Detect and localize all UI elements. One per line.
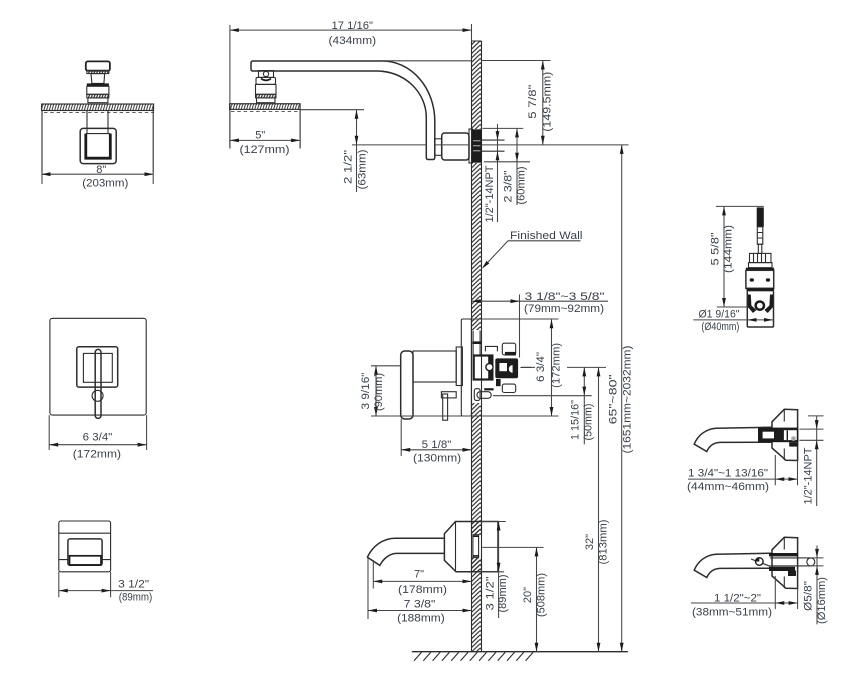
cartridge: lower body — [747, 291, 773, 327]
svg-text:8": 8" — [96, 164, 106, 176]
svg-text:(508mm): (508mm) — [536, 573, 548, 617]
svg-text:(38mm~51mm): (38mm~51mm) — [692, 606, 772, 618]
svg-text:(89mm): (89mm) — [497, 575, 509, 613]
svg-text:20": 20" — [522, 587, 534, 603]
dimension 32" (813mm) — [584, 367, 610, 651]
svg-text:6 3/4": 6 3/4" — [83, 431, 113, 443]
svg-text:(44mm~46mm): (44mm~46mm) — [687, 481, 769, 493]
dimension 5 7/8" (149.5mm) — [527, 61, 554, 145]
tub spout side view: wall block — [367, 522, 498, 572]
svg-text:7 3/8": 7 3/8" — [404, 599, 436, 611]
dimension 17 1/16" (434mm) — [230, 20, 472, 47]
svg-text:(172mm): (172mm) — [551, 343, 563, 388]
svg-text:17 1/16": 17 1/16" — [332, 20, 374, 32]
svg-text:(203mm): (203mm) — [82, 178, 128, 190]
valve body — [474, 356, 493, 380]
svg-text:(178mm): (178mm) — [398, 584, 447, 596]
dimension 3 9/16" (90mm) — [360, 366, 559, 416]
wall-mount spout (slip-on type): flange hexagon — [694, 537, 815, 588]
svg-text:(172mm): (172mm) — [73, 448, 121, 460]
svg-text:(1651mm~2032mm): (1651mm~2032mm) — [622, 346, 634, 454]
dimension 65"~80" (1651mm~2032mm) — [608, 145, 634, 652]
cartridge: body — [746, 268, 774, 271]
shower head side view: sides/extension lines — [229, 25, 231, 104]
svg-text:1/2"-14NPT: 1/2"-14NPT — [803, 447, 815, 504]
pipe slot in wall — [473, 535, 479, 558]
valve side view: lever — [401, 351, 413, 419]
spout tube — [694, 427, 772, 451]
svg-text:(60mm): (60mm) — [516, 167, 528, 205]
wall-mount spout (NPT type): flange hexagon — [694, 409, 798, 460]
pipe behind wall — [482, 140, 505, 151]
valve side view: handle body — [413, 351, 456, 382]
dimension Ø5/8" (Ø16mm) — [800, 546, 828, 625]
internal diagonal line — [751, 559, 770, 566]
floor hatching — [414, 652, 533, 660]
dimension 6 3/4" (172mm) front — [49, 415, 146, 460]
floor line — [412, 651, 628, 653]
valve outlet port (to tub spout) — [474, 389, 480, 401]
dimension 20" (508mm) — [482, 547, 547, 651]
valve behind wall: top fitting — [485, 346, 497, 351]
svg-text:5 7/8": 5 7/8" — [527, 85, 539, 119]
shower head side view: connector stack — [256, 71, 277, 103]
dimension 5 5/8" (144mm) — [710, 206, 764, 307]
dimension 5 1/8" (130mm) — [401, 419, 471, 465]
svg-text:(79mm~92mm): (79mm~92mm) — [524, 303, 604, 315]
svg-text:1 3/4"~1 13/16": 1 3/4"~1 13/16" — [688, 467, 768, 479]
svg-text:Ø1 9/16": Ø1 9/16" — [699, 309, 740, 321]
svg-text:1 1/2"~2": 1 1/2"~2" — [714, 593, 761, 605]
threaded nipple dark band — [758, 428, 798, 443]
svg-text:3 1/2": 3 1/2" — [118, 578, 149, 590]
shower head front view: plate — [42, 104, 154, 184]
valve trim front view: lever handle — [92, 390, 103, 401]
svg-text:(90mm): (90mm) — [373, 373, 385, 411]
dimension 8" (203mm) — [42, 164, 154, 190]
svg-text:5 1/8": 5 1/8" — [422, 439, 452, 451]
dimension 3 1/2" (89mm) side — [482, 522, 510, 619]
valve side view: handle escutcheon — [456, 347, 462, 386]
svg-text:5 5/8": 5 5/8" — [710, 232, 722, 265]
label 1/2"-14NPT (spout nipple) — [799, 415, 823, 506]
svg-text:(188mm): (188mm) — [397, 613, 445, 625]
svg-text:2 3/8": 2 3/8" — [503, 170, 515, 202]
valve trim front view: handle escutcheon squares — [77, 347, 118, 387]
svg-text:(434mm): (434mm) — [329, 35, 377, 47]
valve behind wall: supply pipe up — [472, 331, 531, 401]
dimension Ø1 9/16" (Ø40mm) — [693, 309, 774, 334]
shower arm wall connector — [435, 139, 442, 156]
spout tube — [694, 553, 772, 577]
svg-text:(144mm): (144mm) — [723, 225, 735, 273]
wall hatch over spout block — [472, 522, 482, 535]
dimension 3 1/8"~3 5/8" (79mm~92mm) — [472, 291, 608, 358]
svg-text:3 1/8"~3 5/8": 3 1/8"~3 5/8" — [525, 291, 605, 303]
shower head front view: handle square — [80, 128, 116, 163]
svg-text:65"~80": 65"~80" — [608, 374, 620, 424]
shower arm flange — [442, 133, 469, 160]
svg-text:(Ø16mm): (Ø16mm) — [816, 577, 828, 624]
svg-text:(130mm): (130mm) — [413, 452, 461, 464]
slip connection dark details — [769, 553, 798, 556]
dimension 2 3/8" (60mm) — [483, 128, 531, 205]
svg-text:(127mm): (127mm) — [240, 144, 290, 156]
valve cartridge (side) — [495, 358, 518, 378]
shower head side view: plate — [230, 25, 301, 149]
cartridge: splined collar — [750, 253, 772, 262]
wall hatched band — [472, 41, 482, 652]
shower head front view: body — [42, 111, 153, 173]
svg-text:(149.5mm): (149.5mm) — [542, 72, 554, 132]
copper pipe — [770, 558, 811, 566]
dimension 3 1/2" (89mm) front — [59, 578, 153, 603]
dimension 7 3/8" (188mm) — [368, 558, 472, 625]
svg-text:Finished Wall: Finished Wall — [510, 230, 583, 242]
svg-text:2 1/2": 2 1/2" — [343, 150, 355, 184]
valve centerline extension — [523, 366, 606, 368]
svg-text:(813mm): (813mm) — [598, 520, 610, 565]
dimension 6 3/4" (172mm) side — [471, 319, 562, 416]
svg-text:3 1/2": 3 1/2" — [485, 576, 497, 610]
dimension 2 1/2" (63mm) — [300, 110, 368, 192]
valve side view: lower small lever — [441, 392, 456, 398]
svg-text:5": 5" — [255, 129, 265, 141]
svg-text:(50mm): (50mm) — [583, 404, 595, 441]
valve side view: trim plate — [401, 319, 472, 420]
svg-text:7": 7" — [414, 569, 424, 581]
svg-text:6 3/4": 6 3/4" — [535, 352, 547, 382]
valve trim front view: plate — [50, 318, 146, 418]
tub spout side view: spout tube — [367, 538, 444, 565]
dimension 1 1/2"~2" (38mm~51mm) — [691, 576, 798, 618]
label 1/2"-14NPT (shower arm) — [484, 124, 499, 223]
shower arm — [251, 61, 551, 164]
shower head front view: top connector stack — [86, 61, 110, 102]
dimension 7" (178mm) — [373, 560, 471, 596]
tub spout front view — [59, 521, 111, 597]
svg-text:(Ø40mm): (Ø40mm) — [701, 321, 739, 333]
shower head front view: stem — [87, 111, 108, 134]
svg-text:1/2"-14NPT: 1/2"-14NPT — [484, 165, 496, 222]
dimension 1 15/16" (50mm) — [493, 367, 595, 444]
svg-text:32": 32" — [584, 534, 596, 550]
shower arm wall plate — [469, 129, 472, 163]
threaded nipple in wall — [472, 129, 482, 162]
label Finished Wall with leader — [482, 230, 583, 269]
valve behind wall: bottom fitting — [502, 384, 515, 392]
svg-text:(89mm): (89mm) — [119, 592, 153, 604]
dimension 1 3/4"~1 13/16" (44mm~46mm) — [687, 455, 798, 493]
svg-text:1 15/16": 1 15/16" — [570, 400, 582, 440]
shower arm top edge extension — [380, 60, 551, 62]
svg-text:(63mm): (63mm) — [357, 150, 369, 190]
centerline of shower arm outlet — [352, 144, 629, 146]
dimension 5" (127mm) — [230, 129, 300, 156]
svg-text:3 9/16": 3 9/16" — [360, 372, 372, 409]
svg-text:Ø5/8": Ø5/8" — [803, 581, 815, 611]
cartridge: stem — [746, 207, 774, 327]
